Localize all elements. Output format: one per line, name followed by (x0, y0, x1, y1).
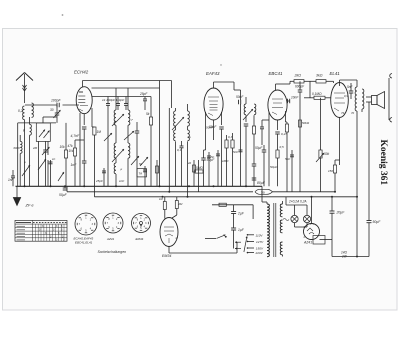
svg-text:50k: 50k (324, 152, 330, 156)
AZ41 socket plate (313, 236, 332, 245)
capacitor 50uF right (367, 219, 382, 257)
svg-text:0,9: 0,9 (344, 94, 348, 98)
capacitor 2uF mains (231, 205, 245, 228)
svg-text:100pF: 100pF (51, 99, 62, 103)
svg-text:µ: µ (121, 167, 123, 171)
wire ECH42 anode line (92, 81, 160, 187)
label Koenig 361 brand (378, 140, 388, 186)
wire EM34 bottom (169, 242, 237, 253)
wire transformer legs down (357, 109, 362, 257)
resistor 10k left (60, 123, 68, 186)
antenna (16, 73, 33, 83)
variable core arrow IF2 (172, 117, 184, 130)
svg-text:1k 100pF 110pF: 1k 100pF 110pF (102, 98, 125, 102)
svg-text:50µF: 50µF (59, 193, 68, 197)
switch mains arm (205, 234, 227, 238)
svg-text:127V: 127V (256, 240, 264, 244)
IF transformer 1 primary coil (114, 88, 116, 125)
svg-text:µ: µ (189, 135, 191, 139)
svg-text:µ: µ (24, 160, 26, 164)
tube EL41 (331, 80, 349, 118)
svg-text:5n: 5n (211, 155, 215, 159)
svg-text:EL41: EL41 (330, 71, 341, 76)
svg-text:150V: 150V (256, 247, 264, 251)
capacitor 100pF series (51, 99, 62, 108)
capacitor stub x145 (139, 162, 147, 186)
variable capacitor tuning (42, 141, 50, 186)
capacitor 5nF EAF (244, 124, 249, 186)
label ECH42 (74, 70, 89, 75)
capacitor 25pF (139, 92, 148, 110)
label Sockelschaltungen (98, 250, 127, 254)
wire x198 (197, 160, 199, 192)
svg-text:47k: 47k (68, 144, 74, 148)
wire osc vertical (20, 117, 29, 186)
svg-text:ECH42: ECH42 (74, 70, 89, 75)
svg-text:EBC41,EL41: EBC41,EL41 (75, 241, 93, 245)
resistor 5M horizontal (195, 166, 203, 173)
capacitor stub x104 (102, 168, 106, 186)
capacitor 50uF below bus (59, 186, 68, 197)
svg-text:50µΩ: 50µΩ (270, 165, 278, 169)
coil antenna secondary (32, 103, 34, 117)
resistor 14ohm (341, 251, 348, 259)
tube EM34 (160, 218, 178, 247)
transformer secondary heater (280, 220, 282, 233)
resistor 0.5M EBC (276, 150, 279, 186)
wire ECH42 pins down (80, 108, 92, 186)
capacitor padder (131, 118, 139, 186)
label values left block (24, 146, 56, 164)
wire EBC heater stub (260, 120, 269, 145)
wire EBC41 pins (269, 111, 286, 186)
label EL41 (330, 71, 341, 76)
wire IF2 legs (176, 126, 188, 197)
svg-text:1nF: 1nF (119, 179, 124, 183)
svg-text:1M: 1M (159, 197, 164, 201)
wire ground bus 1 (16, 185, 263, 187)
svg-text:50nF: 50nF (236, 95, 244, 99)
svg-text:5nF: 5nF (233, 150, 238, 154)
svg-text:Sockelschaltungen: Sockelschaltungen (98, 250, 127, 254)
wire antenna to bus (24, 120, 26, 187)
ZF output arrow (13, 186, 20, 205)
label socket AZ41 (106, 237, 115, 241)
label EBC41 (269, 71, 283, 76)
svg-text:20µF: 20µF (336, 211, 346, 215)
svg-text:5nF: 5nF (285, 157, 290, 161)
switch pickup 1 (131, 156, 139, 165)
svg-text:5k: 5k (146, 112, 150, 116)
switch mains contacts (234, 241, 241, 250)
coil bottom pair (114, 163, 122, 174)
table grid (15, 220, 67, 241)
capacitor 4.7nF (71, 127, 87, 145)
switch pickup 2 (140, 157, 148, 166)
capacitor 50uF EAF (201, 150, 215, 186)
svg-text:AZ41: AZ41 (303, 241, 312, 245)
capacitor 10nF (287, 96, 299, 104)
svg-text:1M: 1M (97, 130, 102, 134)
svg-text:AZ41: AZ41 (106, 237, 115, 241)
lamp 1 (291, 205, 298, 227)
wire antenna lead (23, 82, 27, 103)
wire grid line to ECH42 (25, 104, 79, 106)
wire grid riser EL41 (310, 81, 321, 150)
resistor x300 stub (299, 96, 310, 192)
svg-text:0000: 0000 (14, 146, 21, 150)
label 0,1 IF2 (177, 135, 191, 152)
label 0,9uF output (344, 94, 348, 98)
svg-text:ZF e: ZF e (25, 203, 35, 208)
resistor 0.1M horizontal (304, 92, 331, 99)
capacitor x292 stub (285, 150, 294, 192)
svg-text:150: 150 (328, 169, 333, 173)
svg-text:4,7nF: 4,7nF (71, 134, 81, 138)
wire speaker down (368, 102, 370, 219)
resistor 47k 1W (68, 140, 85, 186)
voltage selector (244, 233, 264, 255)
svg-text:TA: TA (139, 172, 143, 176)
coil oscillator (14, 141, 23, 153)
resistor 50k pot (316, 150, 330, 192)
svg-text:1MΩ: 1MΩ (222, 159, 229, 163)
svg-text:7k: 7k (351, 111, 355, 115)
coil band (23, 124, 31, 135)
variable core arrow IF1 (112, 114, 124, 126)
resistor EM34 feed 1 (159, 197, 166, 219)
IF transformer 2 primary (174, 108, 176, 126)
tube EBC41 (268, 84, 287, 120)
svg-text:EM34: EM34 (136, 237, 144, 241)
resistor 3k (316, 74, 326, 84)
capacitor x240 stub (233, 104, 243, 186)
wire bus 3 (94, 192, 357, 197)
socket EM34 (132, 214, 151, 233)
resistor mid (146, 97, 153, 187)
IF transformer 2 secondary (188, 104, 190, 126)
wire EAF43 top line (214, 82, 235, 90)
transformer core (274, 203, 276, 257)
svg-text:0,2: 0,2 (18, 109, 23, 113)
resistor stub x157 (156, 160, 159, 186)
wire HT rail right (312, 196, 358, 198)
svg-text:5k: 5k (139, 162, 143, 166)
capacitor x218 stub (216, 150, 220, 186)
capacitor 50nF (209, 125, 224, 186)
svg-text:EAF43: EAF43 (206, 71, 220, 76)
wire EBC plate to top (276, 81, 291, 84)
capacitor 50nF coupling (236, 95, 244, 104)
wire EAF plate riser (234, 90, 241, 100)
switch wave 1 (22, 165, 30, 176)
svg-text:5a: 5a (261, 190, 265, 194)
coil oscillator pair lower (112, 143, 130, 162)
lamp 2 (303, 205, 310, 227)
svg-text:µ: µ (23, 128, 25, 132)
box TA pickup (137, 169, 147, 177)
wire ECH42 top line (83, 80, 172, 82)
wire switchbox legs (39, 117, 58, 186)
label socket 1 (74, 237, 94, 245)
label 50nF EAF grid (206, 126, 214, 130)
wire bottom right (332, 256, 369, 258)
svg-text:0,27: 0,27 (281, 132, 287, 136)
label 1MOhm mid (222, 159, 229, 163)
svg-text:50µF: 50µF (373, 220, 382, 224)
IF transformer 1 secondary coil (128, 88, 130, 125)
resistor x194 vertical (187, 160, 196, 186)
socket AZ41 (103, 213, 123, 233)
wire ECH42 cap row line (92, 96, 151, 98)
resistor EL41 cathode (328, 160, 340, 192)
svg-text:2×0,2A 0,2A: 2×0,2A 0,2A (288, 200, 307, 204)
resistor 1M EAF (225, 135, 228, 186)
svg-text:25pF: 25pF (95, 179, 103, 183)
svg-text:30: 30 (50, 108, 54, 112)
svg-text:Koenig 361: Koenig 361 (378, 140, 388, 186)
capacitor EBC grid (275, 132, 280, 150)
svg-text:50nF: 50nF (206, 126, 214, 130)
label AZ41 (303, 241, 312, 245)
connector 5a bubble (255, 189, 273, 194)
wire band line (18, 123, 56, 186)
capacitor 20uF (330, 196, 346, 257)
wire riser x169 (168, 108, 170, 192)
pilot lamps label (288, 200, 307, 204)
wire EL41 cathode down (339, 118, 341, 166)
svg-text:5MΩ: 5MΩ (196, 166, 203, 170)
wire riser x171 (171, 81, 173, 109)
svg-text:2M: 2M (32, 146, 38, 150)
transformer secondary rect (280, 242, 282, 257)
speck top (62, 14, 64, 16)
wire stub column x50 (49, 160, 53, 186)
svg-text:2kΩ: 2kΩ (294, 74, 302, 78)
wave switch box (36, 123, 50, 141)
wire EAF43 pins (204, 112, 222, 150)
capacitor 100pF row (102, 97, 128, 187)
transformer primary winding (262, 202, 269, 257)
svg-text:50kΩ: 50kΩ (302, 121, 310, 125)
svg-text:1µF: 1µF (238, 228, 245, 232)
resistor EAF load (252, 122, 255, 160)
label 0,5M EBC (270, 145, 284, 169)
svg-text:220V: 220V (255, 251, 264, 255)
capacitor 5nF output (347, 83, 354, 99)
switch wave 2 (38, 159, 46, 170)
capacitor IF2 (180, 141, 184, 186)
variable capacitor 30pF (50, 105, 61, 123)
svg-text:0,1: 0,1 (177, 148, 182, 152)
coil antenna primary (18, 106, 25, 120)
IF2 lower coils (174, 130, 190, 141)
speaker (366, 92, 385, 109)
output transformer primary (355, 87, 357, 111)
switch arm left bottom (58, 172, 64, 181)
socket ECH42/EAF43/EBC41/EL41 (75, 213, 97, 235)
fuse mains (219, 203, 226, 206)
capacitor 1uF mains (231, 228, 245, 241)
capacitor 80uF (252, 160, 266, 186)
svg-text:EBC41: EBC41 (269, 71, 283, 76)
capacitor 1nF 1kV (71, 145, 87, 186)
svg-text:0,3: 0,3 (228, 135, 233, 139)
resistor 2k (294, 74, 305, 84)
svg-text:80µF: 80µF (257, 181, 266, 185)
svg-text:0,5: 0,5 (280, 145, 285, 149)
label row above bus left (95, 179, 124, 183)
wire EL41 plate top (340, 80, 358, 87)
label EAF43 (206, 71, 220, 76)
capacitor x209 (207, 152, 215, 186)
svg-text:EM34: EM34 (162, 254, 171, 258)
capacitor 600pF (295, 81, 305, 95)
IF transformer 3 (243, 97, 256, 122)
svg-text:10k: 10k (60, 145, 66, 149)
resistor 0.27M (281, 122, 289, 192)
tube AZ41 (304, 197, 320, 240)
resistor 1M ECH42 grid (92, 127, 101, 192)
svg-text:25pF: 25pF (139, 92, 148, 96)
svg-text:2k: 2k (187, 161, 192, 165)
wire IF1 legs (116, 125, 128, 186)
transformer secondary HT (280, 201, 282, 217)
svg-text:2µF: 2µF (237, 212, 245, 216)
label socket EM34 (136, 237, 144, 241)
label EM34 (162, 254, 171, 258)
tube ECH42 (76, 81, 92, 114)
svg-text:10nF: 10nF (291, 96, 299, 100)
speck mid (220, 64, 221, 65)
wire top chain (290, 81, 334, 83)
wire bus 2 (67, 186, 335, 192)
capacitor 50uF EBC (255, 145, 266, 186)
tube EAF43 (204, 82, 223, 120)
wire lamps top (283, 197, 314, 227)
speaker mounting bracket (389, 74, 392, 123)
junction dots buses (24, 185, 359, 198)
svg-text:1nF: 1nF (71, 163, 78, 167)
svg-text:50µF: 50µF (255, 146, 263, 150)
svg-text:110V: 110V (256, 233, 264, 237)
switch IF1 (104, 131, 134, 141)
resistor EM34 feed 2 (172, 197, 183, 218)
label 1nF (8, 170, 15, 186)
svg-text:2M: 2M (178, 202, 184, 206)
wire mains line (212, 205, 253, 219)
svg-text:74: 74 (341, 111, 345, 115)
svg-text:1n: 1n (52, 157, 56, 161)
output transformer secondary (351, 89, 364, 115)
wire selector to transformer (261, 186, 263, 202)
resistor 0.3M (228, 133, 234, 186)
label ZF (25, 203, 35, 208)
svg-text:3kΩ: 3kΩ (316, 74, 323, 78)
svg-text:0,1MΩ: 0,1MΩ (312, 92, 322, 96)
